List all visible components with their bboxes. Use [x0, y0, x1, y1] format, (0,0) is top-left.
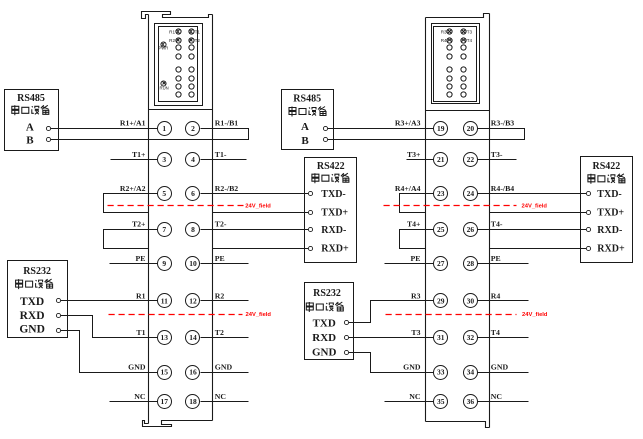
- svg-text:T1+: T1+: [132, 150, 146, 159]
- svg-text:R3: R3: [441, 29, 447, 34]
- device box: RS422 串口设备: [305, 158, 357, 263]
- device box: RS485 串口设备: [282, 90, 334, 150]
- svg-text:RS232: RS232: [23, 266, 51, 277]
- module 1 LED channel labels: [169, 29, 200, 42]
- device box: RS422 串口设备: [581, 157, 633, 263]
- module 2 LED panel: [432, 24, 480, 104]
- wire PE stub right terminal 10: [201, 263, 249, 265]
- terminal pin 32: [464, 331, 478, 345]
- pin marker RXD: [56, 313, 60, 317]
- svg-text:T1: T1: [195, 29, 201, 34]
- svg-text:24: 24: [467, 189, 475, 198]
- bus terminal module 1 (terminals 1-18) outline: [142, 12, 213, 427]
- svg-text:TXD-: TXD-: [597, 189, 621, 200]
- svg-text:21: 21: [437, 155, 445, 164]
- svg-text:T3+: T3+: [407, 150, 421, 159]
- wire PE stub left terminal 9: [110, 263, 158, 265]
- wire RS485 A to terminal 1 (R1+/A1): [49, 128, 158, 130]
- terminal pin 15: [158, 366, 172, 380]
- wire PE stub left terminal 27: [385, 263, 434, 265]
- svg-text:24V_field: 24V_field: [245, 204, 271, 210]
- svg-text:TXD+: TXD+: [321, 207, 348, 218]
- svg-text:PE: PE: [215, 254, 225, 263]
- svg-text:RS485: RS485: [293, 94, 321, 105]
- wire NC stub left terminal 35: [385, 401, 434, 403]
- terminal pin 36: [464, 395, 478, 409]
- svg-text:33: 33: [437, 368, 445, 377]
- pin marker B: [323, 137, 327, 141]
- wire RXD+ row right of module #2: [490, 248, 589, 250]
- svg-text:R4: R4: [491, 292, 501, 301]
- svg-text:T4+: T4+: [407, 220, 421, 229]
- wire RS232 #2 TXD up to terminal 29 (R3): [347, 301, 434, 323]
- wire terminal 14 T2 stub: [201, 337, 249, 339]
- wire terminal 18 NC stub: [201, 401, 249, 403]
- svg-text:17: 17: [161, 397, 169, 406]
- svg-text:NC: NC: [134, 392, 146, 401]
- svg-text:10: 10: [189, 259, 197, 268]
- wire terminal 32 T4 stub: [478, 337, 529, 339]
- wire terminal 36 NC stub: [478, 401, 529, 403]
- svg-text:T3: T3: [411, 328, 420, 337]
- svg-text:RXD+: RXD+: [321, 243, 349, 254]
- svg-text:GND: GND: [403, 363, 421, 372]
- pin marker TXD: [344, 320, 348, 324]
- svg-text:13: 13: [161, 333, 169, 342]
- svg-text:24V_field: 24V_field: [246, 312, 272, 318]
- terminal pin 2: [186, 122, 200, 136]
- svg-text:B: B: [26, 134, 34, 146]
- module 1 LED panel: [155, 24, 203, 106]
- svg-text:T4: T4: [491, 328, 500, 337]
- wire terminal 12 R2 stub: [201, 300, 249, 302]
- wire RS232 #2 RXD to terminal 31 (T3): [347, 337, 434, 339]
- terminal pin 34: [464, 366, 478, 380]
- svg-text:12: 12: [189, 297, 197, 306]
- svg-text:T2-: T2-: [215, 220, 227, 229]
- 24V_field boundary dashed line (lower right): [386, 314, 517, 316]
- svg-text:25: 25: [437, 225, 445, 234]
- terminal pin 7: [158, 223, 172, 237]
- bus terminal module 2 (terminals 19-36) outline: [426, 14, 490, 428]
- svg-text:T3-: T3-: [491, 150, 503, 159]
- svg-text:16: 16: [189, 368, 197, 377]
- wire RS232 TXD to terminal 11 (R1): [59, 300, 158, 302]
- svg-text:15: 15: [161, 368, 169, 377]
- pin marker RXD: [344, 335, 348, 339]
- pin marker TXD-: [308, 191, 312, 195]
- svg-text:R4+/A4: R4+/A4: [395, 184, 421, 193]
- svg-text:RS422: RS422: [317, 161, 345, 172]
- label 串口设备 (serial device): [306, 302, 343, 312]
- svg-text:R4-/B4: R4-/B4: [491, 184, 514, 193]
- svg-text:TXD: TXD: [313, 317, 336, 329]
- 24V_field boundary dashed line (lower left): [109, 314, 243, 316]
- svg-text:A: A: [301, 121, 309, 133]
- terminal pin 19: [434, 122, 448, 136]
- svg-text:R3: R3: [411, 292, 421, 301]
- svg-text:TXD+: TXD+: [597, 207, 624, 218]
- svg-text:T1-: T1-: [215, 150, 227, 159]
- svg-text:R2+/A2: R2+/A2: [120, 184, 146, 193]
- pin marker RXD+: [308, 246, 312, 250]
- svg-text:NC: NC: [215, 392, 227, 401]
- svg-text:PE: PE: [136, 254, 146, 263]
- terminal pin 10: [186, 257, 200, 271]
- wire TXD+ row right of module #2: [490, 212, 589, 214]
- wire terminal 30 R4 stub: [478, 300, 529, 302]
- svg-text:RXD-: RXD-: [321, 225, 346, 236]
- wire terminal 20 (R3-/B3) loop back to RS485 #2 B: [326, 129, 525, 140]
- terminal pin 22: [464, 153, 478, 167]
- device box: RS232 串口设备: [305, 283, 354, 360]
- svg-text:T4-: T4-: [491, 220, 503, 229]
- terminal pin 9: [158, 257, 172, 271]
- device box: RS232 串口设备: [8, 261, 68, 338]
- svg-text:24V_field: 24V_field: [522, 204, 548, 210]
- terminal pin 31: [434, 331, 448, 345]
- svg-text:R3-/B3: R3-/B3: [491, 119, 514, 128]
- svg-text:24V_field: 24V_field: [522, 312, 548, 318]
- wire RS232 RXD to terminal 13 (T1): [59, 316, 158, 338]
- wire RS232 GND to terminal 15 (GND): [59, 331, 158, 373]
- svg-text:14: 14: [189, 333, 197, 342]
- terminal pin 17: [158, 395, 172, 409]
- svg-text:3: 3: [162, 155, 166, 164]
- svg-text:29: 29: [437, 297, 445, 306]
- svg-text:19: 19: [437, 124, 445, 133]
- svg-text:T4: T4: [467, 38, 473, 43]
- svg-text:31: 31: [437, 333, 445, 342]
- svg-text:RXD: RXD: [20, 310, 45, 322]
- svg-text:22: 22: [467, 155, 475, 164]
- wire terminal 8 (T2-) to RS422 RXD-: [201, 229, 312, 231]
- svg-text:GND: GND: [19, 324, 45, 336]
- wire terminal 7 (T2+) loop down-left: [104, 230, 158, 249]
- terminal pin 5: [158, 187, 172, 201]
- wire terminal 4 T1- stub: [201, 159, 247, 161]
- pin marker RXD+: [586, 246, 590, 250]
- svg-text:B: B: [301, 135, 309, 147]
- terminal pin 33: [434, 366, 448, 380]
- wire T3+ stub to terminal 21: [407, 159, 434, 161]
- svg-text:27: 27: [437, 259, 445, 268]
- svg-text:GND: GND: [312, 346, 337, 358]
- svg-text:28: 28: [467, 259, 475, 268]
- terminal pin 25: [434, 223, 448, 237]
- svg-text:34: 34: [467, 368, 475, 377]
- pin marker RXD-: [586, 227, 590, 231]
- svg-text:26: 26: [467, 225, 475, 234]
- label 串口设备 (serial device): [289, 107, 326, 117]
- wire terminal 22 T3- stub: [478, 159, 517, 161]
- svg-text:R4: R4: [441, 38, 447, 43]
- terminal pin 3: [158, 153, 172, 167]
- wire terminal 26 (T4-) to RS422 #2 RXD-: [478, 229, 588, 231]
- svg-text:GND: GND: [491, 363, 509, 372]
- svg-text:30: 30: [467, 297, 475, 306]
- wire PE stub right terminal 28: [478, 263, 529, 265]
- pin marker TXD: [56, 298, 60, 302]
- label 串口设备 (serial device): [12, 105, 49, 115]
- svg-text:R2-/B2: R2-/B2: [215, 184, 238, 193]
- 24V_field boundary dashed line (upper left): [108, 205, 244, 207]
- module 2 LED channel labels: [441, 29, 473, 42]
- svg-text:R3+/A3: R3+/A3: [395, 119, 421, 128]
- svg-text:RXD+: RXD+: [597, 243, 625, 254]
- terminal pin 20: [464, 122, 478, 136]
- terminal pin 24: [464, 187, 478, 201]
- device box: RS485 串口设备: [5, 90, 59, 151]
- pin marker TXD+: [308, 210, 312, 214]
- wire NC stub left terminal 17: [110, 401, 158, 403]
- svg-text:9: 9: [162, 259, 166, 268]
- terminal pin 21: [434, 153, 448, 167]
- 24V_field boundary dashed line (upper right): [384, 205, 517, 207]
- label 串口设备 (serial device): [588, 174, 625, 184]
- svg-text:18: 18: [189, 397, 197, 406]
- pin marker B: [46, 137, 50, 141]
- module 1 PWR LED: [161, 42, 166, 47]
- pin marker RXD-: [308, 227, 312, 231]
- svg-text:T2: T2: [195, 38, 201, 43]
- wire terminal 6 (R2-/B2) to RS422 TXD-: [201, 193, 311, 195]
- svg-text:T3: T3: [467, 29, 473, 34]
- label 串口设备 (serial device): [16, 279, 53, 289]
- svg-text:RXD: RXD: [312, 332, 336, 344]
- svg-text:23: 23: [437, 189, 445, 198]
- wire TXD+ row right of module: [213, 212, 312, 214]
- svg-text:R2: R2: [169, 38, 175, 43]
- wire RS232 #2 GND down to terminal 33 (GND): [347, 353, 434, 373]
- terminal pin 35: [434, 395, 448, 409]
- pin marker GND: [56, 328, 60, 332]
- svg-text:GND: GND: [128, 363, 146, 372]
- pin marker TXD-: [586, 191, 590, 195]
- svg-text:RS232: RS232: [313, 288, 341, 299]
- svg-text:TXD: TXD: [20, 296, 44, 308]
- svg-text:RUN: RUN: [160, 86, 169, 91]
- svg-text:GND: GND: [215, 363, 233, 372]
- svg-text:TXD-: TXD-: [321, 189, 345, 200]
- svg-text:6: 6: [191, 189, 195, 198]
- svg-text:32: 32: [467, 333, 475, 342]
- svg-text:RXD-: RXD-: [597, 225, 622, 236]
- svg-text:R2: R2: [215, 292, 225, 301]
- pin marker A: [46, 126, 50, 130]
- svg-text:NC: NC: [491, 392, 503, 401]
- terminal pin 30: [464, 294, 478, 308]
- module 1 RUN LED: [161, 81, 166, 86]
- pin marker GND: [344, 350, 348, 354]
- svg-text:PE: PE: [491, 254, 501, 263]
- pin marker TXD+: [586, 210, 590, 214]
- svg-text:R1: R1: [136, 292, 146, 301]
- svg-text:1: 1: [162, 124, 166, 133]
- svg-text:35: 35: [437, 397, 445, 406]
- svg-text:RS485: RS485: [17, 93, 45, 104]
- svg-text:T2: T2: [215, 328, 224, 337]
- wire terminal 16 GND stub: [201, 372, 249, 374]
- wire terminal 23 (R4+/A4) loop down-left: [400, 194, 434, 213]
- svg-text:5: 5: [162, 189, 166, 198]
- terminal pin 11: [158, 294, 172, 308]
- svg-text:T2+: T2+: [132, 220, 146, 229]
- terminal pin 29: [434, 294, 448, 308]
- wire RS485 #2 A to terminal 19 (R3+/A3): [326, 128, 434, 130]
- svg-text:NC: NC: [409, 392, 421, 401]
- terminal pin 13: [158, 331, 172, 345]
- svg-text:20: 20: [467, 124, 475, 133]
- terminal pin 18: [186, 395, 200, 409]
- terminal pin 1: [158, 122, 172, 136]
- svg-text:2: 2: [191, 124, 195, 133]
- wire terminal 34 GND stub: [478, 372, 529, 374]
- terminal pin 23: [434, 187, 448, 201]
- svg-text:A: A: [26, 122, 34, 134]
- svg-text:R1-/B1: R1-/B1: [215, 119, 238, 128]
- terminal pin 14: [186, 331, 200, 345]
- wire terminal 5 (R2+/A2) loop down-left: [104, 194, 158, 213]
- svg-text:36: 36: [467, 397, 475, 406]
- svg-text:R1: R1: [169, 29, 175, 34]
- svg-text:7: 7: [162, 225, 166, 234]
- svg-text:8: 8: [191, 225, 195, 234]
- svg-text:PWR: PWR: [159, 46, 169, 51]
- svg-text:4: 4: [191, 155, 195, 164]
- terminal pin 12: [186, 294, 200, 308]
- label 串口设备 (serial device): [312, 173, 349, 183]
- terminal pin 4: [186, 153, 200, 167]
- svg-text:T1: T1: [136, 328, 145, 337]
- terminal pin 28: [464, 257, 478, 271]
- terminal pin 16: [186, 366, 200, 380]
- terminal pin 27: [434, 257, 448, 271]
- svg-text:R1+/A1: R1+/A1: [120, 119, 146, 128]
- pin marker A: [323, 126, 327, 130]
- terminal pin 26: [464, 223, 478, 237]
- terminal pin 6: [186, 187, 200, 201]
- wire terminal 2 (R1-/B1) loop back to RS485 B: [49, 129, 249, 140]
- wire T1+ stub to terminal 3: [111, 159, 158, 161]
- wire terminal 25 (T4+) loop down-left: [400, 230, 434, 249]
- terminal pin 8: [186, 223, 200, 237]
- wire RXD+ row right of module: [213, 248, 312, 250]
- wire terminal 24 (R4-/B4) to RS422 #2 TXD-: [478, 193, 589, 195]
- svg-text:11: 11: [161, 297, 168, 306]
- svg-text:RS422: RS422: [593, 161, 621, 172]
- svg-text:PE: PE: [411, 254, 421, 263]
